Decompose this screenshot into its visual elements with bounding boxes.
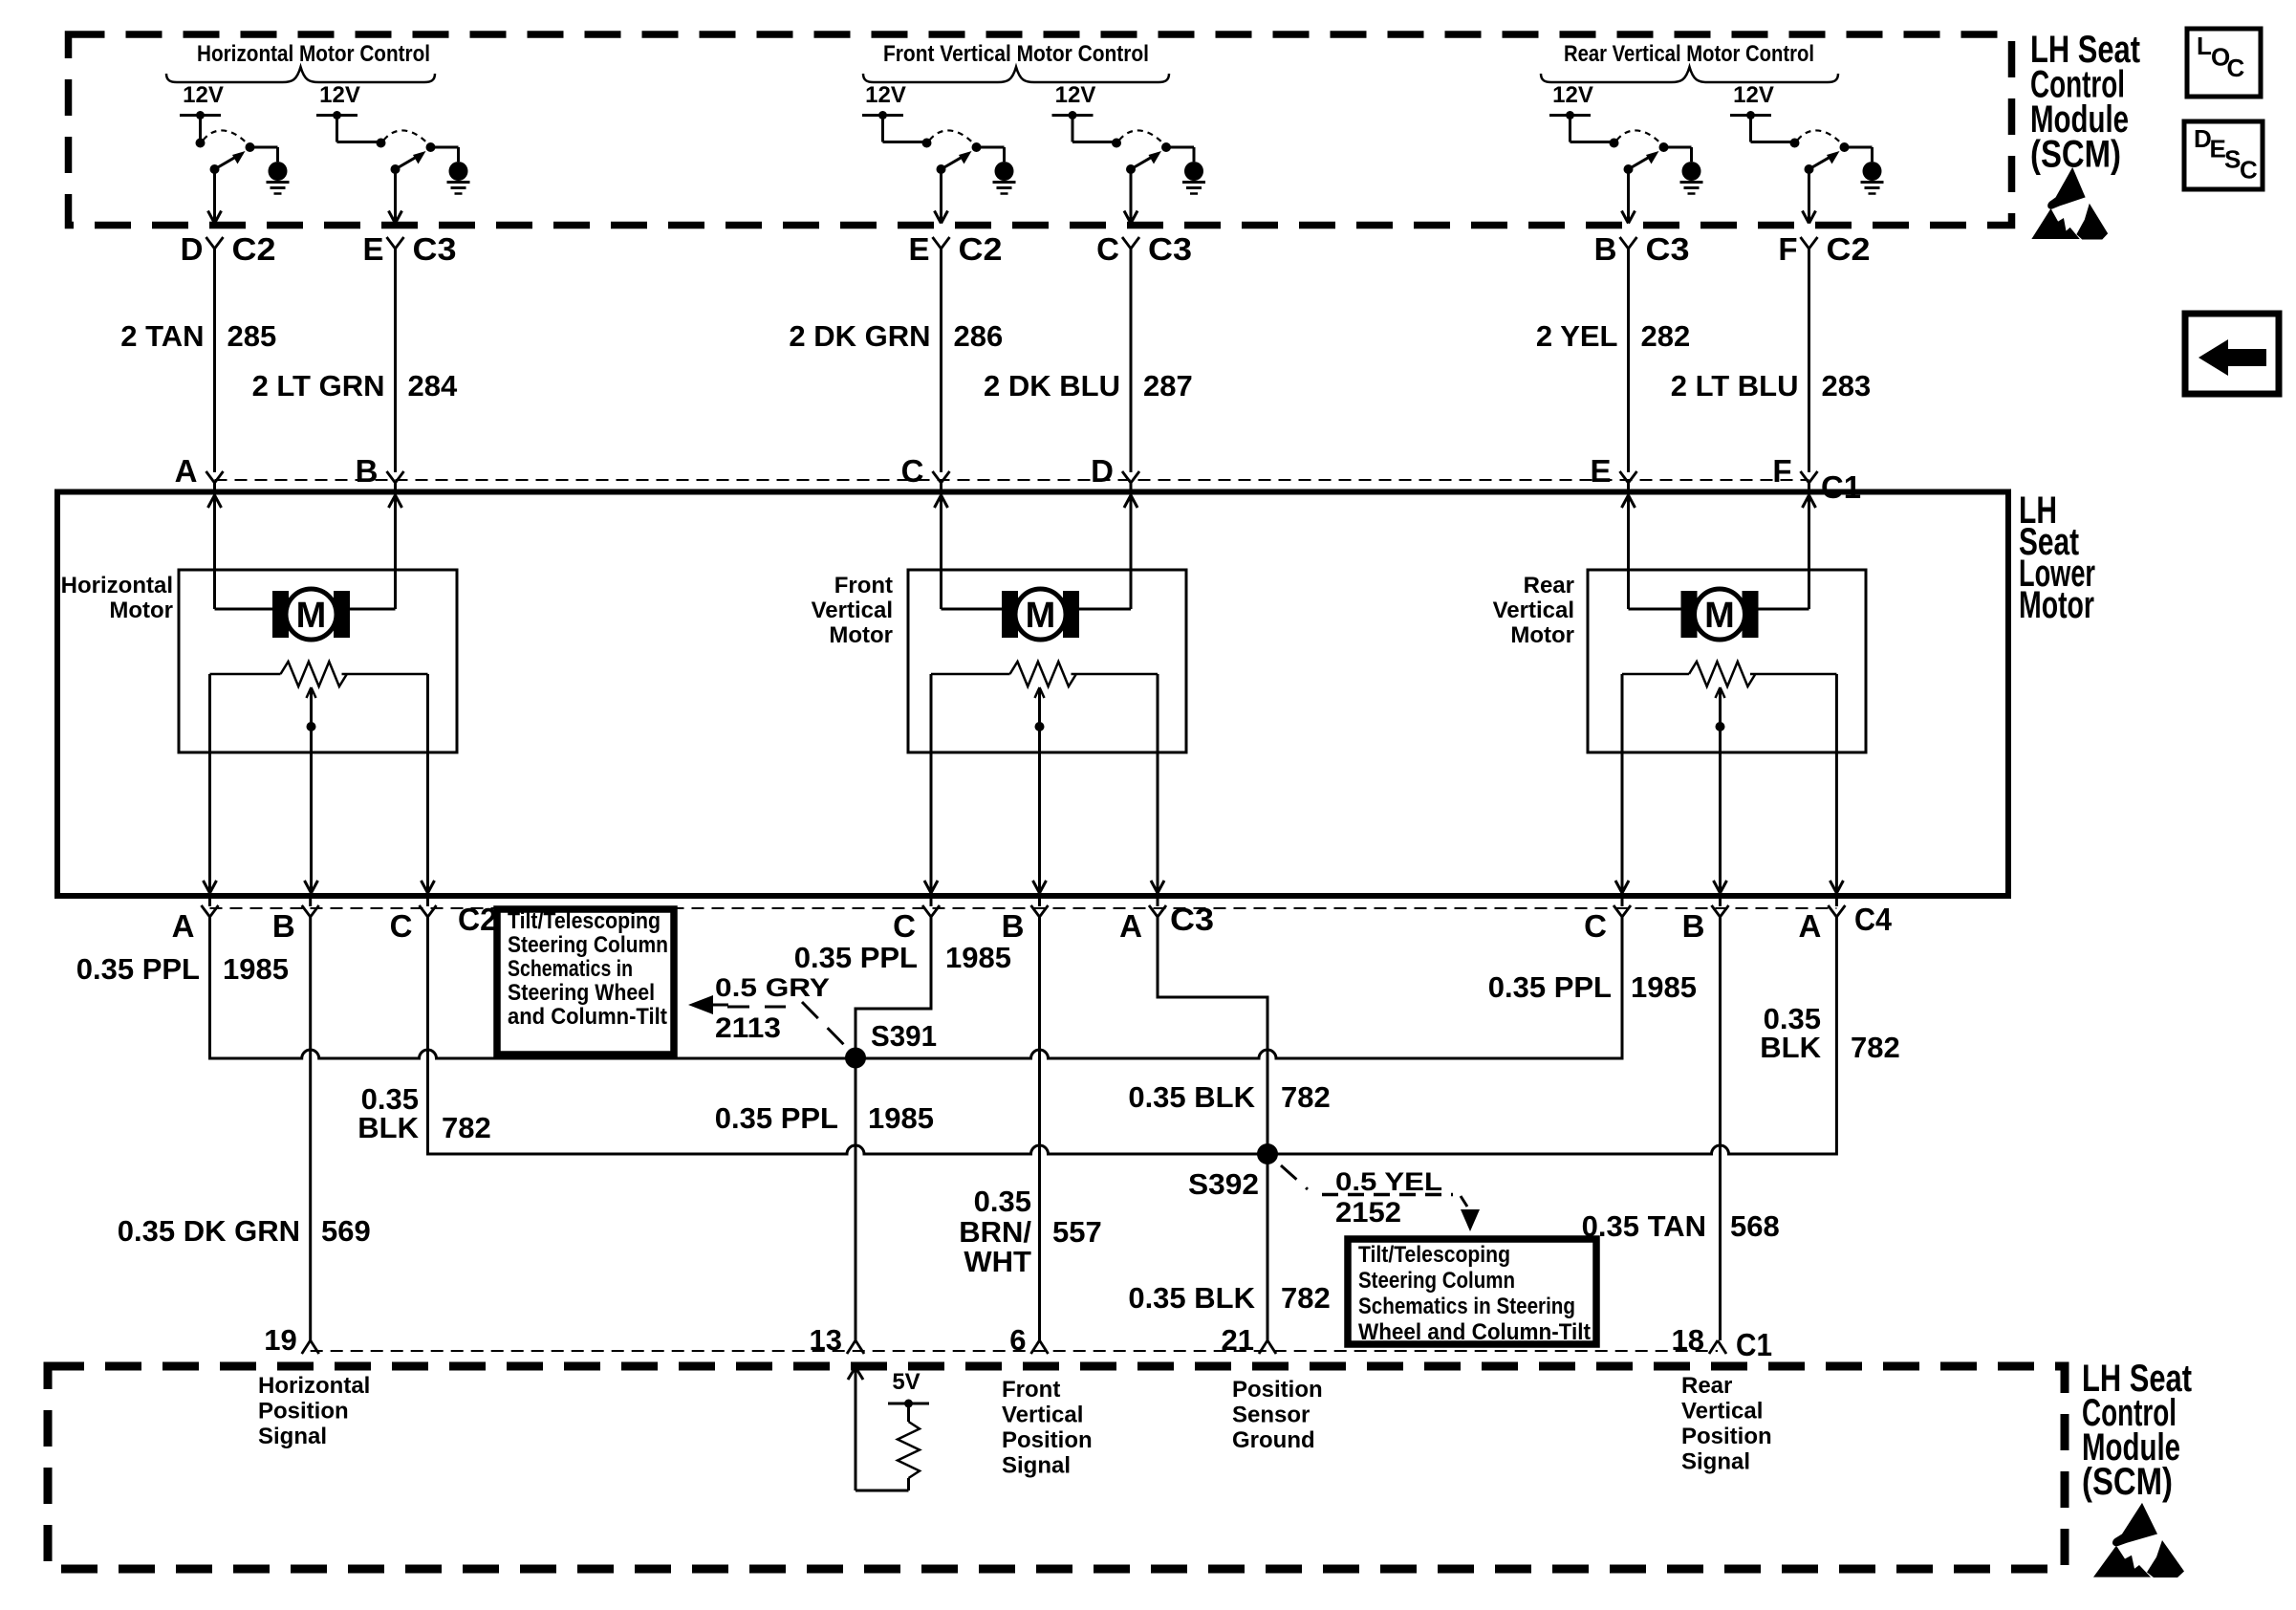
svg-text:C: C — [390, 908, 413, 944]
svg-text:C: C — [2227, 54, 2245, 82]
svg-text:L: L — [2197, 32, 2212, 60]
svg-text:2 LT BLU: 2 LT BLU — [1671, 369, 1799, 402]
svg-text:0.35 PPL: 0.35 PPL — [715, 1101, 838, 1135]
svg-text:(SCM): (SCM) — [2082, 1461, 2173, 1503]
svg-text:Front Vertical Motor Control: Front Vertical Motor Control — [883, 41, 1149, 67]
svg-text:Tilt/Telescoping: Tilt/Telescoping — [508, 908, 661, 934]
svg-text:1985: 1985 — [1631, 970, 1697, 1004]
svg-text:568: 568 — [1730, 1209, 1780, 1243]
svg-text:Vertical: Vertical — [812, 598, 893, 623]
svg-text:Motor: Motor — [109, 598, 173, 623]
svg-text:C3: C3 — [1170, 902, 1214, 937]
svg-text:S391: S391 — [871, 1019, 937, 1053]
svg-text:0.35 PPL: 0.35 PPL — [1488, 970, 1612, 1004]
svg-text:Vertical: Vertical — [1493, 598, 1574, 623]
svg-text:Rear Vertical Motor Control: Rear Vertical Motor Control — [1564, 41, 1814, 67]
svg-text:Vertical: Vertical — [1002, 1403, 1083, 1428]
svg-text:1985: 1985 — [868, 1101, 934, 1135]
svg-text:Motor: Motor — [829, 622, 893, 648]
svg-text:BLK: BLK — [357, 1111, 419, 1144]
svg-text:2152: 2152 — [1335, 1197, 1401, 1229]
svg-text:Motor: Motor — [1510, 622, 1574, 648]
svg-text:B: B — [356, 453, 379, 489]
svg-text:2 TAN: 2 TAN — [120, 319, 204, 353]
svg-text:12V: 12V — [1733, 82, 1774, 108]
svg-text:C3: C3 — [1646, 231, 1690, 267]
svg-text:C: C — [2240, 156, 2258, 185]
svg-text:B: B — [1002, 908, 1025, 944]
svg-text:A: A — [1799, 908, 1822, 944]
svg-text:C3: C3 — [1148, 231, 1192, 267]
svg-text:0.35 BLK: 0.35 BLK — [1128, 1080, 1255, 1114]
svg-text:0.35 DK GRN: 0.35 DK GRN — [118, 1214, 300, 1248]
svg-text:12V: 12V — [1055, 82, 1096, 108]
svg-text:M: M — [1026, 596, 1056, 636]
svg-text:2 DK BLU: 2 DK BLU — [984, 369, 1120, 402]
svg-text:C: C — [893, 908, 916, 944]
svg-text:Position: Position — [258, 1399, 349, 1425]
svg-text:782: 782 — [1281, 1281, 1331, 1315]
svg-text:C2: C2 — [458, 902, 497, 937]
svg-text:A: A — [1119, 908, 1142, 944]
svg-text:12V: 12V — [865, 82, 906, 108]
svg-text:12V: 12V — [1552, 82, 1593, 108]
svg-text:BLK: BLK — [1760, 1031, 1821, 1064]
svg-text:C1: C1 — [1736, 1327, 1772, 1362]
svg-text:M: M — [296, 596, 327, 636]
svg-text:Steering Column: Steering Column — [508, 932, 668, 958]
svg-text:12V: 12V — [319, 82, 360, 108]
svg-text:C3: C3 — [413, 231, 457, 267]
svg-text:Position: Position — [1681, 1424, 1772, 1449]
svg-text:Steering Wheel: Steering Wheel — [508, 980, 655, 1006]
svg-text:and Column-Tilt: and Column-Tilt — [508, 1004, 667, 1030]
svg-text:Motor: Motor — [2019, 584, 2094, 626]
svg-text:Sensor: Sensor — [1232, 1403, 1310, 1428]
svg-text:2 YEL: 2 YEL — [1536, 319, 1618, 353]
svg-text:0.5 YEL: 0.5 YEL — [1335, 1167, 1442, 1196]
svg-text:E: E — [908, 231, 929, 267]
svg-text:Tilt/Telescoping: Tilt/Telescoping — [1358, 1242, 1510, 1268]
svg-text:Horizontal: Horizontal — [61, 573, 173, 598]
svg-text:782: 782 — [1851, 1031, 1900, 1064]
svg-text:Schematics in: Schematics in — [508, 956, 633, 982]
svg-text:C: C — [1584, 908, 1607, 944]
svg-text:286: 286 — [954, 319, 1004, 353]
svg-text:782: 782 — [1281, 1080, 1331, 1114]
svg-text:Front: Front — [834, 573, 893, 598]
svg-text:782: 782 — [442, 1111, 491, 1144]
svg-text:Signal: Signal — [258, 1424, 327, 1449]
svg-text:Front: Front — [1002, 1377, 1060, 1403]
svg-text:Rear: Rear — [1524, 573, 1574, 598]
svg-text:A: A — [175, 453, 198, 489]
svg-text:0.35: 0.35 — [974, 1185, 1031, 1218]
svg-text:Position: Position — [1232, 1377, 1323, 1403]
svg-text:S392: S392 — [1188, 1167, 1259, 1201]
svg-text:Vertical: Vertical — [1681, 1399, 1763, 1425]
svg-text:Position: Position — [1002, 1427, 1093, 1453]
svg-text:(SCM): (SCM) — [2030, 134, 2121, 176]
svg-text:Signal: Signal — [1681, 1449, 1750, 1475]
svg-text:D: D — [1091, 453, 1114, 489]
svg-text:2 DK GRN: 2 DK GRN — [789, 319, 930, 353]
svg-text:569: 569 — [321, 1214, 371, 1248]
svg-text:0.5 GRY: 0.5 GRY — [715, 973, 830, 1002]
svg-text:S: S — [2224, 145, 2241, 174]
svg-text:282: 282 — [1641, 319, 1691, 353]
svg-text:2113: 2113 — [715, 1012, 781, 1044]
svg-text:F: F — [1772, 453, 1791, 489]
svg-text:BRN/: BRN/ — [959, 1215, 1031, 1249]
svg-text:E: E — [1590, 453, 1611, 489]
svg-text:B: B — [272, 908, 295, 944]
svg-text:287: 287 — [1143, 369, 1193, 402]
svg-text:C2: C2 — [1827, 231, 1871, 267]
svg-text:0.35 BLK: 0.35 BLK — [1128, 1281, 1255, 1315]
svg-text:E: E — [362, 231, 383, 267]
svg-text:Ground: Ground — [1232, 1427, 1315, 1453]
svg-text:WHT: WHT — [964, 1245, 1031, 1278]
svg-text:A: A — [172, 908, 195, 944]
svg-text:B: B — [1682, 908, 1705, 944]
svg-text:Horizontal Motor Control: Horizontal Motor Control — [197, 41, 430, 67]
svg-text:C2: C2 — [959, 231, 1003, 267]
svg-text:Signal: Signal — [1002, 1453, 1071, 1479]
svg-text:557: 557 — [1052, 1215, 1102, 1249]
svg-text:Steering Column: Steering Column — [1358, 1268, 1515, 1294]
svg-text:C1: C1 — [1821, 469, 1861, 505]
svg-text:0.35 PPL: 0.35 PPL — [794, 941, 918, 974]
svg-text:283: 283 — [1822, 369, 1872, 402]
svg-text:C2: C2 — [232, 231, 276, 267]
svg-text:C: C — [901, 453, 924, 489]
svg-text:B: B — [1594, 231, 1617, 267]
svg-text:C4: C4 — [1854, 902, 1893, 937]
svg-text:1985: 1985 — [223, 952, 289, 986]
svg-text:19: 19 — [264, 1323, 296, 1357]
svg-text:0.35 TAN: 0.35 TAN — [1582, 1209, 1706, 1243]
svg-text:2 LT GRN: 2 LT GRN — [252, 369, 385, 402]
svg-text:12V: 12V — [183, 82, 224, 108]
svg-text:5V: 5V — [892, 1369, 920, 1395]
svg-text:F: F — [1778, 231, 1797, 267]
svg-text:Horizontal: Horizontal — [258, 1373, 370, 1399]
svg-text:D: D — [181, 231, 204, 267]
svg-text:M: M — [1704, 596, 1735, 636]
svg-text:0.35 PPL: 0.35 PPL — [76, 952, 200, 986]
svg-text:285: 285 — [227, 319, 277, 353]
svg-text:C: C — [1096, 231, 1119, 267]
svg-text:1985: 1985 — [945, 941, 1011, 974]
svg-text:284: 284 — [408, 369, 458, 402]
svg-text:Wheel and Column-Tilt: Wheel and Column-Tilt — [1358, 1319, 1591, 1345]
svg-text:Schematics in Steering: Schematics in Steering — [1358, 1294, 1575, 1319]
svg-text:Rear: Rear — [1681, 1373, 1732, 1399]
